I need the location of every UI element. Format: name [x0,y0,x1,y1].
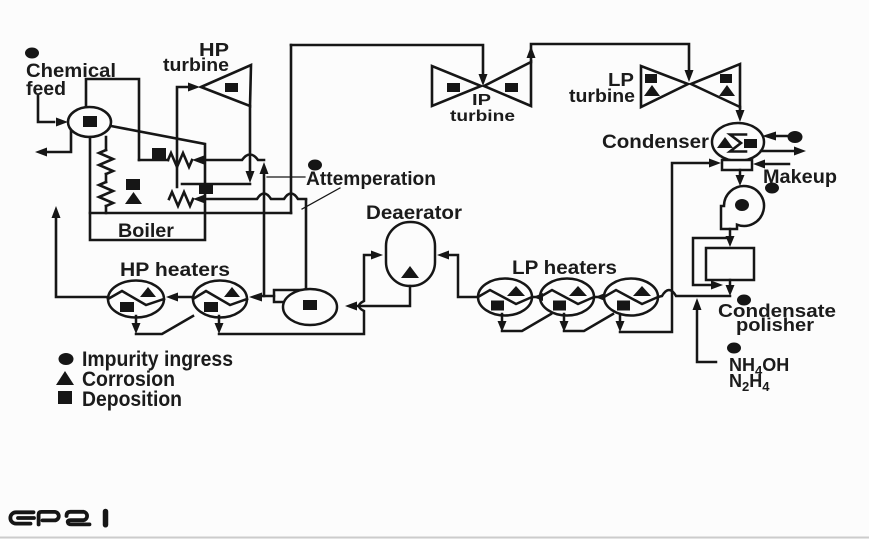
boiler waterwall coil 1 [99,150,113,174]
EPRI logo letter E [10,512,33,523]
corrosion triangle in LP turbine left [644,85,660,96]
impurity ingress bullet at makeup [765,183,779,194]
wire: polisher bypass [693,238,730,285]
node: polisher outlet arrowhead [726,285,735,296]
corrosion triangle in deaerator [401,266,419,278]
node: arrow into reheater coil [193,195,205,204]
EPRI logo letter I [103,512,109,525]
node: arrow into LP turbine [685,70,694,82]
wire: hot reheat top run to IP turbine [291,45,483,74]
wire: spray water riser D to feed pump [305,200,308,289]
impurity ingress bullet at chemical feed [25,48,39,59]
wire: thin leader from label to spray point [267,176,305,178]
IP turbine [432,66,481,106]
node: arrow into IP turbine [479,74,488,86]
wire: LP heater3 drain [619,314,622,321]
node: drains arrowhead into hotwell [709,159,721,168]
node: arrow into deaerator right [437,251,449,260]
node: IP exit up arrowhead [527,46,536,58]
node: HP exhaust down arrowhead [246,171,255,183]
node: makeup arrowhead [753,160,765,169]
svg-text:Deaerator: Deaerator [366,203,463,224]
wire: spray water riser B [263,174,266,296]
LP heater 3 [604,279,658,316]
node: arrowhead into condensate pump [736,175,745,186]
wire: polisher outlet [729,280,732,285]
wire: attemperation line y160 with hop over x250 [204,155,264,161]
svg-text:Deposition: Deposition [82,388,182,411]
deposition square on reheater [199,183,213,194]
steam drum circle [68,107,111,137]
wire: LP drains riser to hotwell [620,163,709,332]
wire: superheater line y160 left segment [139,159,168,162]
legend triangle [56,371,74,385]
condensate pump [721,186,764,229]
condenser [712,123,764,161]
impurity ingress bullet at attemperation [308,160,322,171]
wire: HP heater1-2 link [179,296,193,299]
EPRI logo letter P [39,512,59,525]
wire: IP exit up and crossover to LP turbine [531,44,689,70]
boiler downcomer column [105,137,108,213]
hotwell box [722,160,752,170]
boiler waterwall coil 2 [99,182,113,206]
HP heater 2 [193,281,247,318]
node: arrow into condenser [736,110,745,122]
deposition square on superheater line [152,148,166,159]
deposition square in HP turbine [225,83,238,92]
LP turbine [641,66,688,107]
svg-text:Boiler: Boiler [118,221,175,242]
node: arrow into deaerator left [371,251,383,260]
node: arrowhead into feed pump [345,302,357,311]
deposition square in IP turbine right [505,83,518,92]
wire: reheat line y199 with hops over x264 and x291 [205,194,306,200]
deposition square in IP turbine left [447,83,460,92]
wire: HP exhaust down-leg [249,106,252,171]
wire: HP heater1 drain [136,316,193,334]
legend bullet [59,353,74,365]
svg-text:turbine: turbine [163,55,229,75]
corrosion triangle in condenser [717,137,733,148]
wire: main condensate line to LP heaters with hop [658,290,730,297]
svg-text:turbine: turbine [450,108,515,125]
feedwater pump [274,289,337,325]
impurity ingress bullet at polisher [737,295,751,306]
wire: HP heater2 drain [218,316,221,323]
superheater coil 1 (zigzag) [168,153,192,167]
impurity ingress bullet at condenser [788,131,803,143]
sigma symbol in condenser [730,135,746,152]
wire: LP heater2-3 link [596,296,604,299]
wire: HP drains riser with hop, to deaerator left inlet [219,255,371,334]
legend square [58,391,72,404]
wire: NH4OH injection [697,310,716,362]
node: bypass return arrowhead [711,281,723,290]
svg-text:feed: feed [26,79,66,100]
deposition square in drum [83,116,97,127]
wire: hot reheat riser C [290,45,293,213]
node: NH4OH arrowhead [693,298,702,310]
node: chemical feed arrowhead [56,118,68,127]
svg-text:polisher: polisher [736,315,814,335]
impurity ingress bullet at NH4OH [727,343,741,354]
wire: feed pump discharge [262,295,274,298]
corrosion triangle in boiler [125,192,142,204]
deposition square in boiler [126,179,140,190]
wire: hotwell outlet down [739,170,742,175]
node: arrow into HP heater 2 [249,293,262,302]
corrosion triangle in LP turbine right [719,85,735,96]
wire: condensate to deaerator [449,255,478,297]
wire: circulating water in [776,135,787,138]
reheater coil (zigzag) [169,192,193,206]
node: arrowhead into polisher [726,236,735,247]
deaerator vessel [386,222,435,286]
deposition square in LP turbine right [720,74,732,83]
LP heater 2 [540,279,594,316]
boiler outline [90,126,205,240]
HP turbine [201,65,251,106]
wire: thin diagonal leader to reheat spray point [302,188,340,209]
wire: LP heater1 drain [502,314,551,331]
svg-text:turbine: turbine [569,86,635,106]
wire: reheater outlet horizontal y213 [90,212,291,215]
wire: LP heater2 drain [564,314,613,331]
node: arrow into HP turbine [188,83,200,92]
node: arrow into superheater coil 1 [192,156,204,165]
wire: LP heater1-2 link [534,296,540,299]
condensate polisher box [706,248,754,280]
wire: deaerator bottom to feed pump suction [357,286,410,306]
node: spray water up arrowhead [260,162,269,174]
deposition square in LP turbine left [645,74,657,83]
node: blowdown arrowhead [35,148,47,157]
svg-text:HP heaters: HP heaters [120,260,230,281]
node: circ water out arrowhead [794,147,806,156]
svg-text:LP heaters: LP heaters [512,258,617,279]
wire: chemical feed into drum [38,96,54,122]
wire: cold reheat horizontal y184 [182,183,250,186]
scan edge line at bottom [0,537,869,539]
node: feedwater up arrowhead [52,206,61,218]
wire: blowdown out of drum [47,130,71,152]
EPRI logo letter R [67,512,90,525]
node: circ water in arrowhead [762,132,776,141]
svg-text:IP: IP [472,92,491,109]
deposition square in condenser [744,139,757,148]
wire: drum top riser to superheater [86,79,139,160]
wire: pump discharge to polisher [729,229,732,236]
wire: feedwater up-leg at far left [56,218,108,297]
wire: makeup into hotwell [766,163,789,166]
HP heater 1 [108,281,164,318]
wire: circulating water out [761,150,793,153]
svg-text:Attemperation: Attemperation [306,169,436,190]
LP heater 1 [478,279,532,316]
svg-text:Condenser: Condenser [602,132,710,153]
wire: main steam to HP turbine [177,87,188,187]
wire: LP exhaust to condenser [739,107,742,111]
